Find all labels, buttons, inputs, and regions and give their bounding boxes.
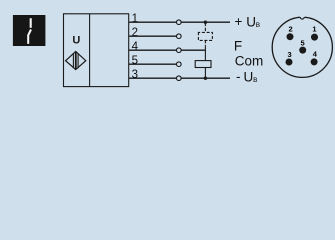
pin circle wire 4 (177, 48, 182, 53)
dashed box (optional element) (198, 32, 212, 40)
wire resistor to -UB (204, 68, 206, 79)
sensor diamond symbol (66, 51, 86, 69)
wire 3 (129, 77, 230, 79)
switch icon (black square) (13, 15, 46, 46)
svg-text:B: B (256, 22, 260, 29)
wire 2 (129, 35, 177, 37)
pin circle wire 5 (177, 62, 182, 67)
dashed drop wire (204, 23, 206, 33)
svg-text:+: + (234, 14, 242, 29)
connector pin 2 (287, 33, 294, 40)
divider (89, 14, 91, 87)
wire 4 (129, 49, 206, 51)
svg-text:2: 2 (132, 27, 138, 39)
svg-text:-: - (236, 69, 241, 84)
pin circle wire 2 (177, 34, 182, 39)
svg-text:3: 3 (132, 69, 138, 81)
switch symbol strokes (30, 18, 32, 28)
junction node on wire 1 (204, 21, 207, 24)
connector pin 1 (311, 34, 318, 41)
pin circle wire 1 (177, 20, 182, 25)
svg-text:1: 1 (312, 25, 316, 34)
svg-text:5: 5 (132, 55, 138, 67)
svg-text:4: 4 (132, 41, 139, 53)
pin circle wire 3 (177, 76, 182, 81)
junction node on wire 3 (204, 77, 207, 80)
connector face circle (272, 17, 332, 77)
svg-text:U: U (244, 70, 254, 85)
resistor (load) (195, 61, 211, 68)
wire to resistor (204, 47, 206, 61)
wire 5 (129, 63, 177, 65)
svg-text:Com: Com (235, 53, 264, 68)
svg-text:5: 5 (301, 38, 305, 47)
svg-text:U: U (246, 15, 256, 30)
connector pin 5 (299, 47, 306, 54)
svg-text:3: 3 (288, 50, 292, 59)
svg-text:U: U (72, 34, 80, 46)
svg-text:F: F (234, 38, 242, 53)
svg-text:2: 2 (289, 25, 293, 34)
svg-text:1: 1 (132, 13, 138, 25)
connector pin 3 (286, 59, 293, 66)
connector pin 4 (311, 58, 318, 65)
wire 1 (129, 21, 230, 23)
keying notch (300, 16, 305, 19)
svg-text:B: B (253, 77, 257, 84)
dashed wire below box (204, 40, 206, 46)
sensor box (64, 14, 129, 87)
